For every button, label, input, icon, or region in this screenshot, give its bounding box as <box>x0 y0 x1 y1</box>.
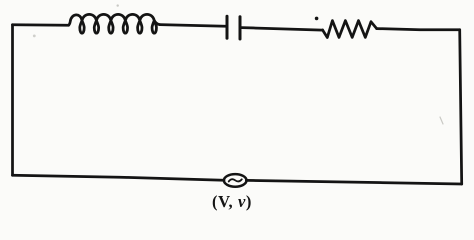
wire bottom-right segment <box>246 180 461 184</box>
resistor R1 <box>323 21 377 38</box>
wire from capacitor to resistor <box>242 28 323 31</box>
inductor L1 <box>69 14 160 33</box>
capacitor C1 right plate <box>239 17 242 39</box>
label (V, v) <box>202 192 262 212</box>
faint scan speckle <box>440 117 443 124</box>
wire right vertical <box>460 30 462 184</box>
wire bottom-left segment <box>13 175 224 180</box>
faint scan speckle <box>33 35 36 38</box>
wire top-left segment <box>13 23 69 26</box>
wire from inductor to capacitor <box>160 25 226 27</box>
faint scan speckle <box>117 4 119 6</box>
ac source (V, v) <box>224 174 247 187</box>
node dot above wire <box>315 17 319 21</box>
capacitor C1 left plate <box>226 16 229 38</box>
wire left vertical <box>11 25 14 175</box>
wire from resistor to top-right corner <box>377 29 460 30</box>
